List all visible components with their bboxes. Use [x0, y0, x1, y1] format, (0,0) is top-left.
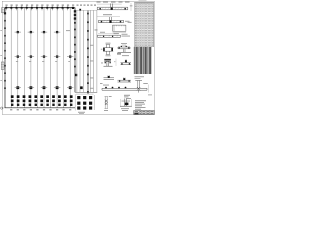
row 32 text: [66, 29, 70, 32]
dimension text below bottom border: [10, 109, 71, 110]
middle strip top line: [76, 9, 97, 11]
plan bottom border: [5, 107, 75, 109]
interior bay labels: [16, 60, 71, 63]
left border column marks: [4, 12, 6, 89]
detail I: pile with cross marks: [104, 96, 112, 111]
detail K: 3x3 anchor bolt plan: [75, 94, 94, 114]
plan left border wall: [4, 8, 6, 109]
legend box top-left: [2, 8, 5, 13]
centerline dashes row 56.5: [15, 55, 74, 58]
detail F: small beam right: [121, 60, 132, 65]
detail G: T-beams row: [104, 75, 132, 82]
detail C: third beam strip: [98, 32, 131, 38]
sheet frame: [2, 1, 154, 114]
section label 2-2: [95, 29, 98, 32]
interior columns row y=87.5: [16, 86, 82, 89]
detail A title text: [97, 1, 130, 4]
interior columns row y=32: [17, 31, 59, 33]
interior columns row y=56.5: [17, 55, 72, 57]
pile line side notes: [90, 45, 94, 89]
title block: [134, 110, 155, 114]
detail H: continuous beam elevation: [100, 83, 147, 90]
detail B2: base plan box: [113, 22, 132, 34]
left sheet margin marks: [1, 30, 2, 81]
legend box mid-left: [1, 62, 4, 70]
detail B: second beam section: [97, 14, 130, 23]
grid bubble bottom-left: [1, 107, 3, 109]
detail D1: joint cross: [101, 43, 113, 57]
bottom pile-cap square rows: [11, 95, 73, 102]
centerline dashes row 87.5: [15, 86, 74, 89]
hatched notes block: [134, 47, 152, 79]
segmented thick pile line: [87, 11, 89, 95]
middle elevation strip verticals: [77, 10, 97, 92]
detail D2: beam with base plate: [117, 43, 131, 56]
detail H2: beam-column joint with brace: [135, 81, 148, 93]
detail E: column section with flange: [101, 59, 116, 67]
top column ticks: [6, 6, 67, 7]
column at right border y=75: [75, 74, 77, 76]
right border column marks: [74, 10, 76, 67]
top column stubs below: [6, 9, 67, 10]
top row columns: [5, 7, 74, 9]
detail J: column base with haunch: [120, 95, 152, 111]
centerline dashes row 32: [15, 31, 61, 33]
middle strip bottom line: [75, 91, 97, 93]
plan right border wall: [74, 8, 76, 93]
notes text block: [124, 95, 146, 110]
plan grid lines (vertical): [11, 8, 70, 108]
strip top column mark: [79, 9, 81, 11]
dimension text above top border: [5, 5, 96, 6]
plan top border wall: [5, 7, 75, 9]
detail A: top beam section: [97, 3, 132, 11]
